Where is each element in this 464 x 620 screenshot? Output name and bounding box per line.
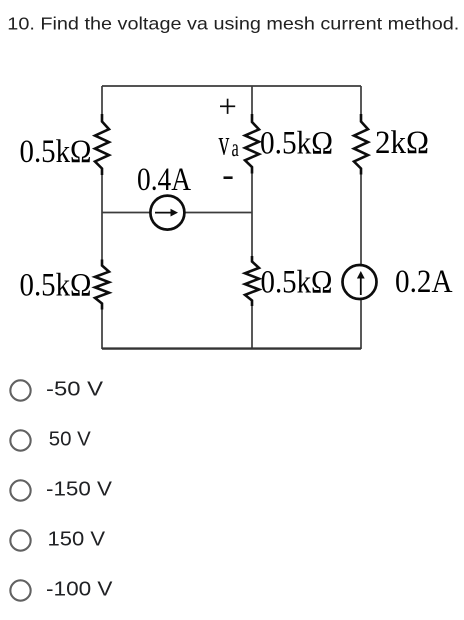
svg-text:0.5kΩ: 0.5kΩ xyxy=(261,265,333,301)
svg-text:0.2A: 0.2A xyxy=(395,264,453,300)
svg-text:0.5kΩ: 0.5kΩ xyxy=(20,134,92,170)
svg-text:50 V: 50 V xyxy=(49,429,92,451)
svg-text:0.5kΩ: 0.5kΩ xyxy=(260,126,333,162)
svg-text:150 V: 150 V xyxy=(48,529,106,551)
svg-text:-150 V: -150 V xyxy=(46,479,113,501)
svg-text:0.4A: 0.4A xyxy=(137,162,191,198)
svg-text:v: v xyxy=(219,123,230,163)
svg-text:-100 V: -100 V xyxy=(46,579,113,601)
svg-text:10. Find the voltage va using: 10. Find the voltage va using mesh curre… xyxy=(7,14,459,34)
svg-text:-50 V: -50 V xyxy=(46,379,104,401)
svg-text:2kΩ: 2kΩ xyxy=(375,125,429,161)
svg-text:a: a xyxy=(232,135,239,162)
svg-text:0.5kΩ: 0.5kΩ xyxy=(20,268,92,304)
